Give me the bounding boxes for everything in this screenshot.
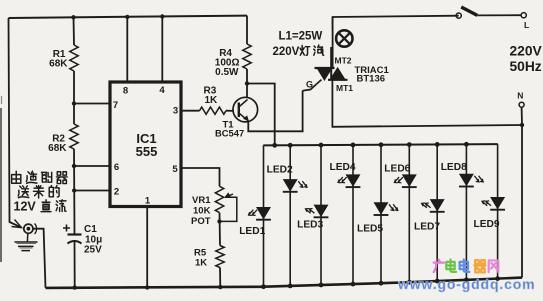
svg-text:L1=25W: L1=25W [279, 31, 323, 43]
svg-text:1K: 1K [195, 258, 207, 269]
wire pin 3 to R3 [181, 110, 200, 112]
triac TRIAC1 BT136 [317, 68, 332, 80]
resistor R3 [200, 107, 227, 114]
LED anode bus [263, 144, 498, 145]
svg-text:C1: C1 [84, 224, 97, 235]
wire N to junction [521, 107, 523, 125]
op-amp U1 IC1 555 timer box [110, 82, 181, 207]
svg-text:N: N [517, 91, 523, 101]
potentiometer VR1 10K [215, 186, 223, 212]
svg-text:1K: 1K [205, 95, 219, 106]
svg-text:68K: 68K [48, 143, 67, 154]
junction dot LED7 bottom [435, 279, 440, 284]
svg-text:LED4: LED4 [330, 162, 356, 173]
junction dot LED3 bottom [319, 283, 324, 288]
LED LED8 [460, 174, 473, 185]
junction dot pin2 tee [72, 188, 76, 192]
scan edge artifact [0, 108, 2, 262]
wire top supply rail [9, 16, 248, 18]
junction dots on bottom bus left [73, 285, 77, 289]
resistor R5 1K [216, 246, 224, 268]
LED LED7 [431, 200, 444, 211]
gate lead [316, 80, 322, 85]
svg-text:2: 2 [114, 187, 119, 198]
wire terminal to bottom bus [33, 229, 46, 288]
junction dot LED2 bottom [288, 283, 293, 288]
svg-text:L: L [524, 20, 529, 30]
junction dot LED9 bottom [495, 276, 500, 281]
ground [15, 233, 38, 250]
watermark colored chars [434, 260, 444, 273]
svg-text:6: 6 [114, 162, 119, 173]
svg-text:BC547: BC547 [215, 128, 244, 139]
LED2 column wire [289, 145, 291, 286]
svg-text:www.go-gddq.com: www.go-gddq.com [397, 276, 535, 292]
wire left rail [9, 18, 22, 228]
junction dot pin7 tee [72, 101, 76, 105]
svg-text:LED3: LED3 [297, 219, 323, 230]
junction dot pin6 tee [72, 164, 76, 168]
wire pin 1 down to bus [146, 207, 148, 288]
wire VR1 to R5 [219, 213, 222, 246]
LED LED1 [257, 208, 270, 219]
svg-text:POT: POT [191, 216, 211, 227]
svg-text:BT136: BT136 [357, 74, 386, 85]
svg-text:25V: 25V [84, 245, 102, 256]
svg-text:555: 555 [136, 144, 158, 159]
resistor R4 [243, 44, 251, 69]
svg-text:LED1: LED1 [239, 226, 265, 237]
junction dot LED5 top [379, 142, 384, 147]
switch blade [461, 7, 477, 15]
wire to pin 7 [74, 103, 109, 105]
terminal input jack [24, 224, 33, 233]
LED LED3 [314, 205, 327, 216]
svg-text:5: 5 [172, 164, 178, 175]
svg-text:220V: 220V [273, 46, 300, 58]
switch contact left [456, 13, 461, 18]
junction dot rail pin4 [160, 14, 164, 18]
wire R3 to T1 base [226, 110, 234, 112]
wire R5 to bottom bus [219, 268, 221, 288]
junction dot LED6 bottom [407, 280, 412, 285]
junction dot N node [520, 123, 524, 127]
svg-text:VR1: VR1 [192, 195, 211, 206]
svg-text:8: 8 [123, 86, 128, 97]
plug arrow into terminal [12, 220, 22, 228]
wire R1 top rail to R1 [73, 17, 76, 45]
svg-text:LED9: LED9 [474, 219, 500, 230]
bottom neutral bus [46, 278, 523, 288]
svg-text:50Hz: 50Hz [510, 59, 542, 74]
junction dot rail pin8 [125, 15, 129, 19]
junction dot top rail / R1 [71, 15, 75, 19]
junction dot wiper node [217, 219, 221, 223]
junction dot LED7 top [435, 142, 440, 147]
svg-text:10K: 10K [193, 206, 211, 217]
wire N down to bottom bus [521, 125, 523, 278]
junction dot LED4 bottom [351, 282, 356, 287]
svg-text:3: 3 [173, 106, 178, 117]
wire R1 to R2 [73, 71, 75, 124]
svg-text:MT1: MT1 [336, 83, 353, 93]
transistor T1 BC547 [233, 97, 258, 122]
wire to pin 2 [74, 190, 109, 192]
resistor R1 [70, 45, 78, 71]
LED1 column wire [263, 145, 265, 286]
LED5 column wire [380, 145, 382, 284]
svg-text:4: 4 [159, 85, 165, 96]
LED3 column wire [320, 145, 322, 285]
junction dot LED3 top [319, 143, 324, 148]
svg-text:0.5W: 0.5W [215, 67, 239, 78]
junction dot LED8 top [464, 142, 469, 147]
LED8 column wire [465, 144, 467, 280]
wire blade to L terminal [477, 14, 521, 16]
svg-text:G: G [306, 80, 313, 90]
junction dot LED2 top [288, 143, 293, 148]
wire R4 to collector junction [246, 69, 248, 98]
svg-text:68K: 68K [49, 59, 68, 70]
svg-text:1: 1 [145, 196, 151, 207]
LED9 column wire [497, 144, 499, 279]
svg-text:LED8: LED8 [441, 162, 467, 173]
svg-text:LED5: LED5 [357, 224, 383, 235]
lamp L1 [332, 17, 334, 69]
wire collector node to LED bus [247, 84, 275, 146]
LED7 column wire [436, 144, 438, 281]
LED4 column wire [352, 145, 354, 284]
LED LED2 [284, 180, 297, 191]
junction dot LED4 top [351, 143, 356, 148]
capacitor C1 [68, 233, 82, 235]
terminal L [521, 13, 526, 18]
wire pin 8 to rail [126, 17, 128, 82]
wire pin 5 to VR1 [181, 168, 220, 186]
junction dot collector node [245, 81, 249, 85]
wire rail corner down to R4 [246, 16, 248, 44]
wire lamp branch top [333, 16, 459, 31]
svg-text:LED6: LED6 [384, 164, 410, 175]
LED LED5 [374, 203, 387, 214]
junction dot LED1 bottom [261, 284, 266, 289]
Chinese label 12V DC from adapter [12, 171, 21, 183]
junction dot collector-bus [272, 143, 277, 148]
LED LED9 [491, 198, 504, 209]
svg-text:MT2: MT2 [335, 56, 352, 66]
resistor R2 [70, 124, 78, 149]
svg-text:7: 7 [113, 100, 118, 111]
LED6 column wire [408, 145, 410, 283]
wire emitter down and right to gate [248, 85, 316, 132]
wire to pin 6 [74, 165, 109, 167]
junction dot LED8 bottom [464, 277, 469, 282]
junction dot LED6 top [407, 142, 412, 147]
wire pin 4 to rail [161, 17, 163, 83]
wire R2 down to C1 and bus [73, 149, 76, 234]
LED LED6 [403, 175, 416, 186]
junction dot LED5 bottom [379, 281, 384, 286]
svg-text:220V: 220V [510, 44, 543, 59]
svg-text:LED2: LED2 [267, 165, 293, 176]
svg-text:LED7: LED7 [414, 222, 440, 233]
wire MT1 down right to N line [332, 80, 522, 127]
LED LED4 [346, 175, 359, 186]
svg-text:12V: 12V [14, 200, 37, 214]
